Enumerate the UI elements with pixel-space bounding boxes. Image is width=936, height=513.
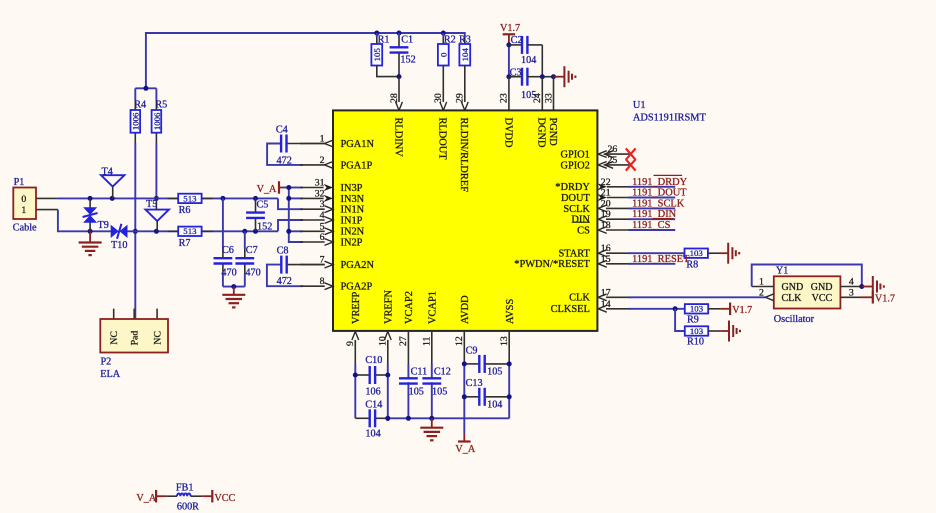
svg-text:AVSS: AVSS (505, 299, 516, 324)
svg-text:V_A: V_A (136, 493, 156, 504)
svg-text:1: 1 (759, 277, 764, 288)
svg-text:30: 30 (433, 93, 444, 103)
svg-text:IN1N: IN1N (341, 205, 365, 216)
svg-text:GPIO1: GPIO1 (560, 150, 589, 161)
svg-text:T10: T10 (111, 240, 127, 251)
svg-text:Y1: Y1 (776, 266, 788, 277)
svg-text:T9: T9 (98, 220, 109, 231)
svg-text:Pad: Pad (130, 331, 141, 346)
svg-text:104: 104 (521, 55, 536, 66)
svg-text:13: 13 (499, 336, 510, 346)
svg-text:PGA2N: PGA2N (341, 260, 375, 271)
svg-text:R10: R10 (687, 337, 704, 348)
svg-text:T5: T5 (146, 199, 157, 210)
svg-text:T4: T4 (102, 166, 113, 177)
svg-text:NC: NC (109, 331, 120, 345)
svg-text:V1.7: V1.7 (500, 23, 520, 34)
svg-text:C12: C12 (434, 367, 451, 378)
svg-text:PGA1P: PGA1P (341, 160, 373, 171)
svg-text:C5: C5 (257, 200, 269, 211)
svg-text:103: 103 (690, 248, 704, 258)
svg-text:CLK: CLK (782, 293, 803, 304)
svg-text:3: 3 (320, 199, 325, 210)
svg-text:IN3N: IN3N (341, 194, 365, 205)
svg-text:4: 4 (849, 277, 854, 288)
svg-text:R5: R5 (155, 100, 167, 111)
svg-text:12: 12 (454, 336, 465, 346)
svg-text:GND: GND (782, 282, 804, 293)
svg-text:GND: GND (811, 282, 833, 293)
svg-text:28: 28 (389, 93, 400, 103)
svg-text:2: 2 (320, 155, 325, 166)
svg-text:P1: P1 (14, 177, 25, 188)
svg-text:6: 6 (320, 232, 325, 243)
svg-text:23: 23 (499, 93, 510, 103)
svg-text:25: 25 (608, 155, 618, 166)
svg-text:GPIO2: GPIO2 (560, 160, 589, 171)
svg-text:106: 106 (365, 387, 380, 398)
svg-text:1006: 1006 (131, 112, 141, 130)
svg-text:104: 104 (487, 399, 502, 410)
svg-text:14: 14 (601, 299, 611, 310)
svg-text:103: 103 (690, 326, 704, 336)
svg-text:104: 104 (365, 429, 380, 440)
svg-text:105: 105 (372, 48, 382, 62)
svg-text:IN2N: IN2N (341, 227, 365, 238)
svg-text:1191_SCLK: 1191_SCLK (632, 198, 685, 209)
svg-text:IN2P: IN2P (341, 237, 363, 248)
svg-text:VCC: VCC (812, 293, 833, 304)
svg-text:ADS1191IRSMT: ADS1191IRSMT (633, 113, 707, 124)
svg-text:V_A: V_A (257, 184, 277, 195)
svg-text:CLK: CLK (569, 293, 590, 304)
svg-text:Oscillator: Oscillator (774, 314, 815, 325)
svg-text:15: 15 (601, 254, 611, 265)
svg-text:RLDINV: RLDINV (392, 118, 403, 158)
svg-text:FB1: FB1 (176, 482, 194, 493)
svg-text:START: START (558, 249, 590, 260)
svg-text:472: 472 (277, 276, 292, 287)
svg-text:DIN: DIN (571, 215, 590, 226)
svg-text:513: 513 (183, 226, 197, 236)
svg-text:26: 26 (608, 144, 618, 155)
svg-text:VCAP1: VCAP1 (427, 291, 438, 324)
svg-text:17: 17 (601, 287, 611, 298)
svg-text:C6: C6 (222, 245, 234, 256)
svg-text:CS: CS (577, 225, 590, 236)
svg-text:470: 470 (245, 267, 260, 278)
svg-text:*DRDY: *DRDY (555, 182, 590, 193)
svg-text:DVDD: DVDD (502, 118, 513, 149)
svg-text:152: 152 (257, 222, 272, 233)
svg-text:C11: C11 (411, 367, 428, 378)
svg-text:RLDOUT: RLDOUT (437, 118, 448, 161)
svg-text:R7: R7 (179, 238, 191, 249)
svg-text:DOUT: DOUT (561, 193, 591, 204)
svg-text:C7: C7 (246, 245, 258, 256)
svg-text:C4: C4 (276, 124, 288, 135)
svg-text:33: 33 (543, 93, 554, 103)
svg-text:R9: R9 (687, 314, 699, 325)
svg-text:1191_DRDY: 1191_DRDY (632, 177, 688, 188)
svg-text:7: 7 (320, 255, 325, 266)
svg-text:27: 27 (398, 336, 409, 346)
svg-text:PGA1N: PGA1N (341, 139, 375, 150)
svg-text:24: 24 (532, 93, 543, 103)
svg-text:103: 103 (690, 304, 704, 314)
svg-text:22: 22 (601, 177, 611, 188)
svg-text:105: 105 (432, 387, 447, 398)
svg-text:R1: R1 (378, 34, 390, 45)
svg-text:5: 5 (320, 221, 325, 232)
svg-text:DGND: DGND (536, 118, 547, 149)
svg-text:C10: C10 (365, 355, 382, 366)
svg-text:C9: C9 (466, 345, 478, 356)
svg-text:20: 20 (601, 198, 611, 209)
svg-text:U1: U1 (633, 100, 646, 111)
svg-text:21: 21 (601, 188, 611, 199)
svg-text:R6: R6 (179, 205, 191, 216)
svg-text:0: 0 (21, 194, 26, 205)
svg-text:0: 0 (439, 52, 449, 57)
svg-text:2: 2 (759, 288, 764, 299)
svg-text:ELA: ELA (100, 369, 120, 380)
svg-text:PGND: PGND (547, 118, 558, 147)
svg-text:AVDD: AVDD (460, 295, 471, 324)
svg-text:9: 9 (345, 341, 356, 346)
svg-text:32: 32 (315, 188, 325, 199)
svg-text:472: 472 (277, 155, 292, 166)
svg-text:105: 105 (409, 387, 424, 398)
svg-text:IN3P: IN3P (341, 183, 363, 194)
svg-text:1191_RESET: 1191_RESET (632, 254, 690, 265)
svg-text:513: 513 (183, 193, 197, 203)
svg-text:11: 11 (422, 336, 433, 346)
svg-text:Cable: Cable (13, 223, 37, 234)
svg-text:IN1P: IN1P (341, 215, 363, 226)
svg-text:10: 10 (378, 336, 389, 346)
svg-text:V1.7: V1.7 (875, 293, 895, 304)
svg-text:V1.7: V1.7 (732, 305, 752, 316)
svg-text:C2: C2 (511, 35, 523, 46)
svg-text:1191_CS: 1191_CS (632, 220, 671, 231)
svg-text:VREFP: VREFP (351, 291, 362, 324)
svg-text:152: 152 (400, 55, 415, 66)
svg-text:C3: C3 (510, 67, 522, 78)
svg-text:104: 104 (460, 48, 470, 62)
svg-text:VCAP2: VCAP2 (404, 291, 415, 324)
svg-text:R2: R2 (444, 34, 456, 45)
svg-text:1006: 1006 (152, 112, 162, 130)
svg-text:29: 29 (455, 93, 466, 103)
svg-text:C1: C1 (401, 34, 413, 45)
svg-text:NC: NC (152, 331, 163, 345)
svg-text:RLDIN/RLDREF: RLDIN/RLDREF (458, 118, 469, 193)
svg-text:18: 18 (601, 220, 611, 231)
svg-text:470: 470 (221, 267, 236, 278)
svg-text:16: 16 (601, 243, 611, 254)
svg-text:R4: R4 (134, 100, 146, 111)
svg-text:1191_DOUT: 1191_DOUT (632, 188, 687, 199)
svg-text:VCC: VCC (214, 493, 235, 504)
svg-text:1: 1 (320, 134, 325, 145)
svg-text:P2: P2 (101, 357, 112, 368)
svg-text:C13: C13 (466, 378, 483, 389)
svg-text:VREFN: VREFN (383, 289, 394, 324)
svg-text:CLKSEL: CLKSEL (551, 304, 590, 315)
svg-text:V_A: V_A (455, 444, 475, 455)
svg-text:C8: C8 (277, 245, 289, 256)
svg-text:*PWDN/*RESET: *PWDN/*RESET (514, 259, 590, 270)
svg-text:105: 105 (487, 367, 502, 378)
svg-text:PGA2P: PGA2P (341, 282, 373, 293)
svg-text:SCLK: SCLK (563, 204, 590, 215)
svg-text:19: 19 (601, 209, 611, 220)
svg-text:31: 31 (315, 178, 325, 189)
svg-text:600R: 600R (177, 502, 199, 513)
svg-text:4: 4 (320, 210, 325, 221)
svg-text:1: 1 (21, 205, 26, 216)
svg-text:8: 8 (320, 276, 325, 287)
svg-text:C14: C14 (365, 399, 382, 410)
svg-text:3: 3 (849, 288, 854, 299)
